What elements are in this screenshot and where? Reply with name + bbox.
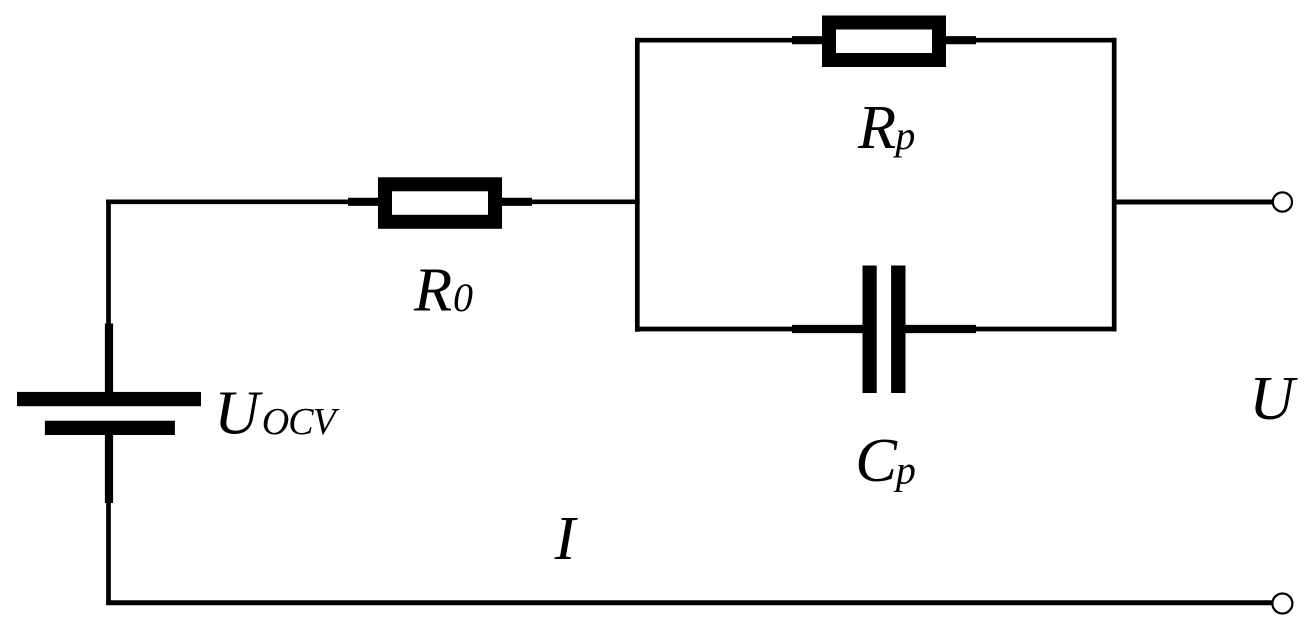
wire: battery bottom lead xyxy=(106,503,111,605)
svg-text:U: U xyxy=(214,378,263,448)
wire: block top right segment xyxy=(976,38,1117,43)
svg-text:R: R xyxy=(413,254,452,324)
label Rp xyxy=(857,92,915,162)
svg-text:R: R xyxy=(857,92,896,162)
node: parallel block left junction xyxy=(635,38,640,332)
svg-text:0: 0 xyxy=(453,275,473,320)
wire: top-left horizontal to R0 xyxy=(106,199,350,204)
svg-text:I: I xyxy=(554,503,579,573)
wire: block top left segment xyxy=(635,38,793,43)
svg-text:p: p xyxy=(893,447,916,492)
resistor Rp xyxy=(792,23,976,61)
resistor R0 xyxy=(348,184,532,222)
capacitor Cp xyxy=(792,266,976,394)
wire: R0 to parallel block xyxy=(532,199,640,204)
terminal: top output xyxy=(1273,192,1292,211)
svg-text:C: C xyxy=(855,425,898,495)
svg-text:U: U xyxy=(1249,363,1298,433)
label Cp xyxy=(855,425,916,495)
wire: block to top output terminal xyxy=(1114,200,1273,205)
svg-text:OCV: OCV xyxy=(262,401,340,443)
wire: block right vertical xyxy=(1112,38,1117,332)
battery U_OCV xyxy=(17,324,201,504)
wire: block bottom left segment xyxy=(635,327,793,332)
label U_OCV xyxy=(214,378,339,448)
wire: left vertical from top node down to battery xyxy=(106,200,111,326)
terminal: bottom output xyxy=(1272,594,1292,614)
svg-text:p: p xyxy=(892,113,915,158)
wire: bottom horizontal to bottom terminal xyxy=(106,600,1272,605)
wire: block bottom right segment xyxy=(976,327,1117,332)
label R0 xyxy=(413,254,473,324)
